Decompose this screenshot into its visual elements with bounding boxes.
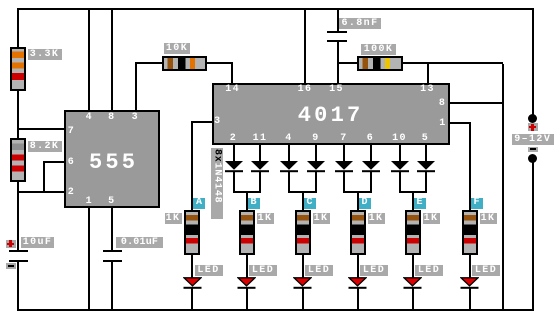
label LED (column D): [360, 265, 388, 276]
diode 1N4148 #5 (from pin 7): [335, 161, 353, 173]
wire: 1K to LED D: [357, 255, 359, 278]
diode 1N4148 #7 (from pin 10): [391, 161, 409, 173]
battery negative terminal dot: [528, 154, 537, 163]
wire: node E to resistor top: [412, 198, 414, 210]
pin label 7 (555): [66, 126, 77, 137]
label 10uF: [21, 237, 54, 248]
wire: LED A to ground rail: [191, 288, 193, 309]
resistor 1K column D (brown-black-red): [350, 210, 366, 256]
node A: [193, 198, 205, 209]
wire: 100K right to ground drop: [403, 62, 504, 64]
wire: 4017 pin 9 down to diode: [315, 145, 317, 162]
wire: 555 pin 5 down to 0.01uF: [111, 208, 113, 251]
label LED (column A): [195, 265, 223, 276]
wire: diode 4 cathode down: [315, 172, 317, 192]
label 1K (column D): [368, 213, 385, 224]
diode 1N4148 #6 (from pin 6): [362, 161, 380, 173]
wire: LED B to ground rail: [246, 288, 248, 309]
label 6.8nF: [339, 18, 381, 29]
wire: diode 1 cathode down: [233, 172, 235, 192]
battery positive terminal dot: [528, 114, 537, 123]
wire: 4017 pin 5 down to diode: [425, 145, 427, 162]
resistor 100K (horizontal, brown-black-yellow): [357, 56, 403, 71]
LED C: [293, 277, 312, 289]
wire: LED F to ground rail: [469, 288, 471, 309]
pin label 14 (4017): [223, 84, 242, 95]
pin label 6 (4017 output): [365, 133, 376, 144]
pin label 8 (555): [106, 112, 117, 123]
wire: 4017 pin 16 to V+ rail: [304, 10, 306, 83]
label 1K (column A): [165, 213, 182, 224]
wire: LED E to ground rail: [412, 288, 414, 309]
wire: pair junction down to node: [246, 193, 248, 199]
wire: 6.8nF bottom to 4017 pin 15: [337, 42, 339, 83]
wire: bottom ground rail: [17, 309, 534, 311]
wire: 4017 pin 4 down to diode: [288, 145, 290, 162]
diode 1N4148 #2 (from pin 11): [251, 161, 269, 173]
wire: pair junction down to node: [357, 193, 359, 199]
wire: 4017 pin 6 down to diode: [370, 145, 372, 162]
wire: diode 5 cathode down: [343, 172, 345, 192]
label 100K: [361, 44, 396, 55]
label 9-12V supply: [512, 134, 554, 145]
wire: battery - down to ground rail: [532, 162, 534, 309]
wire: diode pair OR junction: [399, 191, 427, 193]
LED A: [183, 277, 202, 289]
node E: [414, 198, 426, 209]
wire: diode 2 cathode down: [259, 172, 261, 192]
wire: 1K to LED B: [246, 255, 248, 278]
label 1K (column C): [313, 213, 330, 224]
resistor 1K column B (brown-black-red): [239, 210, 255, 256]
pin label 13 (4017): [418, 84, 437, 95]
wire: V+ rail down to battery +: [532, 10, 534, 115]
LED E: [403, 277, 422, 289]
wire: node A down from pin 3 to resistor: [191, 121, 193, 210]
wire: LED D to ground rail: [357, 288, 359, 309]
wire: node D to resistor top: [357, 198, 359, 210]
label 0.01uF: [116, 237, 163, 248]
pin label 3 (555): [130, 112, 141, 123]
label LED (column B): [249, 265, 277, 276]
capacitor 0.01uF plates: [103, 250, 122, 252]
pin label 8 (4017): [437, 98, 448, 109]
pin label 9 (4017 output): [310, 133, 321, 144]
pin label 15 (4017): [327, 84, 346, 95]
IC U1 555 timer body: [64, 110, 160, 208]
wire: node C to resistor top: [302, 198, 304, 210]
node C: [304, 198, 316, 209]
label - (10uF polarity): [6, 263, 16, 269]
pin label 10 (4017 output): [390, 133, 409, 144]
resistor 3.3K (vertical, orange-orange-red): [10, 47, 26, 91]
node F: [471, 198, 483, 209]
label 1K (column E): [423, 213, 440, 224]
pin label 2 (4017 output): [228, 133, 239, 144]
wire: 555 pin 1 to ground rail: [88, 208, 90, 310]
pin label 4 (555): [84, 112, 95, 123]
wire: diode pair OR junction: [288, 191, 317, 193]
junction: 3.3K/8.2K/pin7 node: [17, 128, 19, 130]
resistor 8.2K (vertical, gray-red-red): [10, 138, 26, 183]
resistor 1K column A (brown-black-red): [184, 210, 200, 256]
wire: timing node down to 10uF +: [17, 193, 19, 251]
wire: diode 6 cathode down: [370, 172, 372, 192]
pin label 7 (4017 output): [338, 133, 349, 144]
label 4017: [296, 105, 366, 127]
wire: top V+ rail: [17, 8, 534, 10]
wire: 3.3K bottom to 8.2K top: [17, 91, 19, 139]
diode 1N4148 #3 (from pin 4): [280, 161, 298, 173]
wire: pair junction down to node: [412, 193, 414, 199]
capacitor 10uF plates: [9, 250, 28, 252]
pin label 2 (555): [66, 187, 77, 198]
label 10K: [164, 43, 190, 54]
wire: node F down from pin 1 to resistor: [469, 122, 471, 211]
pin label 11 (4017 output): [251, 133, 270, 144]
wire: 10K right toward 4017 pin 14: [207, 62, 233, 64]
pin label 5 (555): [106, 196, 117, 207]
label - (battery): [528, 147, 538, 152]
wire: pin6 vertical jog down to pin2 net: [43, 161, 45, 191]
node D: [359, 198, 371, 209]
wire: 555 pin3 to 10K left: [135, 62, 162, 64]
pin label 16 (4017): [296, 84, 315, 95]
resistor 10K (horizontal, brown-black-orange): [162, 56, 208, 71]
wire: jog to 555 pin 6: [43, 161, 65, 163]
LED D: [348, 277, 367, 289]
wire: junction to 555 pin 7: [19, 128, 65, 130]
label LED (column E): [415, 265, 443, 276]
label 3.3K: [28, 49, 62, 60]
wire: 4017 pin 2 down to diode: [233, 145, 235, 162]
wire: 10uF - to ground rail: [17, 262, 19, 310]
pin label 5 (4017 output): [420, 133, 431, 144]
wire: 4017 pin 3 out to left: [191, 121, 212, 123]
capacitor 6.8nF plates: [327, 31, 347, 33]
pin label 6 (555): [66, 157, 77, 168]
wire: 555 pin 8 to V+ rail: [111, 10, 113, 110]
diode 1N4148 #1 (from pin 2): [225, 161, 243, 173]
pin label 1 (4017): [437, 118, 448, 129]
diode 1N4148 #4 (from pin 9): [307, 161, 325, 173]
label 555: [79, 152, 149, 174]
wire: 0.01uF to ground rail: [111, 262, 113, 310]
label LED (column F): [472, 265, 500, 276]
wire: V+ rail down to 6.8nF top: [337, 10, 339, 31]
wire: 1K to LED A: [191, 255, 193, 278]
wire: diode 3 cathode down: [288, 172, 290, 192]
wire: 1K to LED C: [302, 255, 304, 278]
wire: 4017 pin 7 down to diode: [343, 145, 345, 162]
pin label 3 (4017): [212, 116, 223, 127]
label 1K (column B): [257, 213, 274, 224]
wire: 555 pin 3 output up to 10K: [135, 63, 137, 110]
wire: down to 4017 pin 13: [427, 64, 429, 83]
wire: 4017 pin 10 down to diode: [399, 145, 401, 162]
pin label 4 (4017 output): [283, 133, 294, 144]
wire: node B to resistor top: [246, 198, 248, 210]
wire: pair junction down to node: [302, 193, 304, 199]
LED F: [460, 277, 479, 289]
wire: diode 8 cathode down: [425, 172, 427, 192]
diode 1N4148 #8 (from pin 5): [417, 161, 435, 173]
wire: diode pair OR junction: [343, 191, 372, 193]
label + (10uF polarity): [6, 240, 16, 249]
label 8x1N4148 (vertical): [211, 148, 223, 219]
resistor 1K column F (brown-black-red): [462, 210, 478, 256]
label + (battery): [528, 123, 538, 131]
wire: LED C to ground rail: [302, 288, 304, 309]
resistor 1K column C (brown-black-red): [295, 210, 311, 256]
wire: 4017 pin 8 to ground drop: [450, 102, 504, 104]
wire: 555 pin 4 to V+ rail: [88, 10, 90, 110]
resistor 1K column E (brown-black-red): [405, 210, 421, 256]
wire: right-side ground drop to bottom rail: [502, 64, 504, 309]
LED B: [237, 277, 256, 289]
label 8.2K: [28, 141, 62, 152]
wire: 1K to LED E: [412, 255, 414, 278]
wire: down to 4017 pin 14: [231, 62, 233, 83]
wire: 8.2K bottom down: [17, 182, 19, 193]
wire: 8.2K bottom to 555 pin 2: [17, 191, 65, 193]
wire: 4017 pin 11 down to diode: [259, 145, 261, 162]
wire: 1K to LED F: [469, 255, 471, 278]
IC U2 4017 decade counter body: [212, 83, 450, 145]
wire: 4017 pin 1 out to right: [450, 122, 470, 124]
label 1K (column F): [480, 213, 497, 224]
wire: V+ rail down to 3.3K top: [17, 10, 19, 47]
wire: pin15 node to 100K left: [339, 62, 358, 64]
label LED (column C): [305, 265, 333, 276]
node B: [248, 198, 260, 209]
wire: diode 7 cathode down: [399, 172, 401, 192]
pin label 1 (555): [84, 196, 95, 207]
wire: diode pair OR junction: [233, 191, 262, 193]
